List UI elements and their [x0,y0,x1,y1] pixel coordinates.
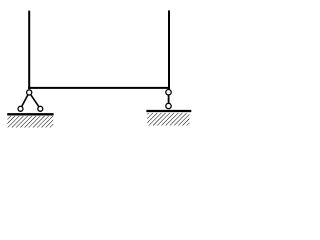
left support bottom-left hinge circle [18,106,23,111]
right column member [168,10,170,89]
beam member [28,87,170,89]
right support upper hinge circle [166,90,171,95]
right ground line [146,110,191,112]
right ground hatching [147,113,189,126]
left ground hatching [7,116,53,128]
left column member [28,11,30,89]
left support leg (right link) [31,95,40,109]
right support lower hinge circle [166,103,171,108]
right support link bar [168,92,170,106]
left support leg (left link) [21,95,28,109]
left support apex hinge circle [27,90,32,95]
left support bottom-right hinge circle [38,106,43,111]
left ground line [7,113,53,115]
